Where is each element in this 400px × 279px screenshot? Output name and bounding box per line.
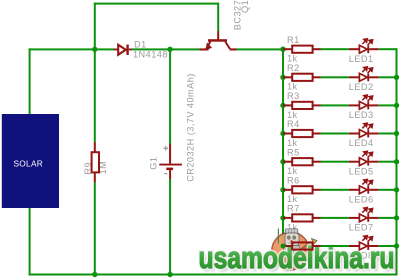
battery plus sign [163,146,168,151]
watermark robot [278,229,317,257]
wire R5 to LED5 [321,161,349,163]
resistor R5 body [292,158,312,165]
LED LED5 cathode bar [367,158,369,166]
svg-text:CR2032H (3,7V 40mAh): CR2032H (3,7V 40mAh) [186,73,196,182]
battery G1 bottom lead [169,170,171,179]
LED LED1 emission arrows [362,39,372,45]
wire main row diode to transistor [131,48,199,50]
resistor R4 body [292,130,312,137]
junction dot at (94.8,49.3) [92,47,97,52]
wire R9 column upper [94,3,96,143]
transistor Q1 emitter arrow [206,42,212,50]
wire bottom rail [29,274,398,276]
svg-text:R4: R4 [287,119,300,129]
junction dot right rail row 3 [394,103,399,108]
battery G1 short plate [166,168,173,171]
junction dot at (170.1,274.5) [167,272,172,277]
svg-text:SOLAR: SOLAR [13,159,43,169]
wire lead R4 right [313,133,321,135]
svg-text:R6: R6 [287,176,300,186]
LED LED1 cathode bar [367,45,369,53]
junction dot feed column row 6 [280,187,285,192]
wire lead LED5 anode [349,161,360,163]
svg-text:LED1: LED1 [349,54,374,64]
wire lead LED4 anode [349,133,360,135]
wire lead LED8 anode [349,245,360,247]
wire lead R1 left [283,48,292,50]
transistor Q1 collector stub [230,48,237,50]
wire main row left segment [29,48,114,50]
wire LED5 to right rail [379,161,398,163]
wire lead diode D1 left [114,49,118,51]
wire LED1 to right rail [379,48,398,50]
LED LED4 emission arrows [362,123,372,129]
transistor Q1 emitter stub [199,48,208,50]
wire lead LED8 cathode [369,245,379,247]
LED LED6 emission arrows [362,179,372,185]
junction dot right rail row 8 [394,243,399,248]
wire lead LED7 anode [349,217,360,219]
wire lead R5 right [313,161,321,163]
junction dot feed column row 8 [281,244,286,249]
svg-text:LED7: LED7 [349,223,374,233]
LED LED1 triangle [359,45,367,53]
LED LED7 emission arrows [362,208,372,214]
solar panel body [2,114,59,208]
junction dot feed column row 4 [280,131,285,136]
junction dot feed column row 1 [280,47,285,52]
wire lead R3 left [283,104,292,106]
svg-text:R1: R1 [287,35,300,45]
resistor R9 top lead [94,142,96,152]
LED LED8 cathode bar [367,242,369,250]
wire lead LED2 cathode [369,76,379,78]
diode D1 triangle [118,45,126,55]
transistor Q1 emitter diagonal [206,42,210,49]
wire R6 to LED6 [321,189,349,191]
LED LED7 triangle [359,214,367,222]
wire lead R5 left [283,161,292,163]
wire battery column lower [169,179,171,276]
wire LED2 to right rail [379,76,398,78]
wire LED8 to right rail [379,245,398,247]
svg-text:R3: R3 [287,91,300,101]
wire LED3 to right rail [379,104,398,106]
wire lead R2 left [283,76,292,78]
LED LED2 triangle [359,73,367,81]
junction dot right rail row 5 [394,159,399,164]
wire lead R1 right [313,48,321,50]
resistor R6 body [292,186,312,193]
wire lead LED3 cathode [369,104,379,106]
wire top rail [94,3,219,5]
junction dot right rail row 2 [394,75,399,80]
wire lead LED7 cathode [369,217,379,219]
resistor R1 body [292,46,312,53]
battery minus sign [164,173,167,174]
wire lead LED1 cathode [369,48,379,50]
LED LED5 triangle [359,158,367,166]
junction dot feed column row 7 [280,215,285,220]
wire lead LED6 anode [349,189,360,191]
LED LED7 cathode bar [367,214,369,222]
wire lead R2 right [313,76,321,78]
wire main row transistor to LED feed column [236,48,283,50]
junction dot feed column row 5 [280,159,285,164]
svg-text:LED2: LED2 [349,82,374,92]
transistor Q1 base lead [217,31,219,39]
LED LED8 triangle [359,242,367,250]
svg-text:Q1: Q1 [240,0,250,13]
watermark logo circle [272,232,310,270]
svg-text:1k: 1k [287,138,298,148]
LED LED5 emission arrows [362,151,372,157]
LED LED3 cathode bar [367,102,369,110]
wire lead R7 left [283,217,292,219]
wire R1 to LED1 [321,48,349,50]
battery G1 top lead [169,144,171,164]
svg-text:R2: R2 [287,63,300,73]
LED LED8 emission arrows [362,236,372,242]
wire R7 to LED7 [321,217,349,219]
wire right rail [396,48,398,275]
transistor Q1 base bar [208,39,227,42]
resistor R3 body [292,102,312,109]
row 8 drawn above watermark [281,236,400,250]
wire lead LED5 cathode [369,161,379,163]
junction dot feed column row 2 [280,75,285,80]
svg-text:D1: D1 [134,39,147,49]
wire lead LED1 anode [349,48,360,50]
LED LED6 triangle [359,186,367,194]
resistor R7 body [292,214,312,221]
LED LED4 cathode bar [367,130,369,138]
wire lead LED4 cathode [369,133,379,135]
wire lead LED6 cathode [369,189,379,191]
wire R4 to LED4 [321,133,349,135]
wire LED4 to right rail [379,133,398,135]
wire lead R3 right [313,104,321,106]
wire R8 to LED8 [321,245,349,247]
resistor R2 body [292,74,312,81]
wire R2 to LED2 [321,76,349,78]
junction dot right rail row 6 [394,187,399,192]
wire left vertical solar top to main row [29,48,31,114]
battery G1 long plate [159,164,182,166]
wire LED6 to right rail [379,189,398,191]
svg-text:1N4148: 1N4148 [133,49,168,59]
wire lead R7 right [313,217,321,219]
resistor R9 bottom lead [94,172,96,182]
wire battery column upper [169,48,171,144]
wire R3 to LED3 [321,104,349,106]
svg-text:LED4: LED4 [349,138,374,148]
resistor R9 body [92,152,99,172]
LED LED3 triangle [359,102,367,110]
junction dot feed column row 3 [280,103,285,108]
svg-text:R7: R7 [287,204,300,214]
wire lead R8 right [313,245,321,247]
svg-text:LED3: LED3 [349,110,374,120]
wire lead R6 right [313,189,321,191]
wire transistor base green [217,3,219,32]
junction dot right rail row 4 [394,131,399,136]
svg-text:R5: R5 [287,147,300,157]
diode D1 cathode bar [126,45,128,55]
wire LED7 to right rail [379,217,398,219]
wire lead R4 left [283,133,292,135]
junction dot right rail row 7 [394,215,399,220]
LED LED6 cathode bar [367,186,369,194]
LED LED2 emission arrows [362,67,372,73]
svg-text:G1: G1 [148,157,158,170]
junction dot at (170.1,49.3) [167,47,172,52]
wire lead LED3 anode [349,104,360,106]
wire lead LED2 anode [349,76,360,78]
wire lead diode D1 right [129,49,132,51]
LED LED4 triangle [359,130,367,138]
wire LED feed column [282,48,284,247]
LED LED3 emission arrows [362,95,372,101]
wire feed column bottom corner into row 8 [282,244,284,247]
wire lead R6 left [283,189,292,191]
wire left vertical solar bottom to bottom rail [29,208,31,276]
wire R9 column lower [94,182,96,275]
LED LED2 cathode bar [367,73,369,81]
resistor R8 body [292,242,312,249]
wire lead R8 left [283,245,292,247]
transistor Q1 collector diagonal [225,42,230,49]
svg-text:LED6: LED6 [349,194,374,204]
junction dot at (94.8,274.5) [92,272,97,277]
svg-text:LED5: LED5 [349,166,374,176]
